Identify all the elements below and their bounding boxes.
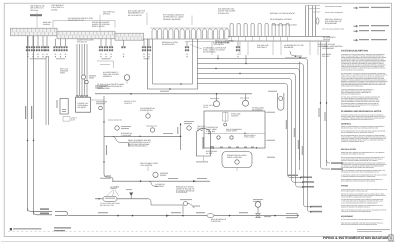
svg-text:MPLETE AND OPERATIONAL SYSTEM: MPLETE AND OPERATIONAL SYSTEM AS INDICAT… [341,224,377,226]
svg-text:ODES AND THE REQUIREMENTS: ODES AND THE REQUIREMENTS [341,93,360,95]
svg-text:ETE AND OP: ETE AND OP [77,41,88,44]
svg-text:VICES NECESSARY FOR A COMPLETE: VICES NECESSARY FOR A COMPLETE [341,69,364,71]
svg-text:S OF THE LOCAL AUTHORITY HAVI: S OF THE LOCAL AUTHORITY HAVI [322,29,345,31]
svg-text:UIREMENTS: UIREMENTS [103,75,112,78]
svg-text:NGINEER OF RECORD THE DOMESTIC: NGINEER OF RECORD THE DOMESTIC WATER S [341,207,370,209]
svg-text:TY HAVING JURISDICTION PROVIDE: TY HAVING JURISDICTION PROVIDE ALL LABOR… [341,176,375,178]
svg-text:PLUMBING AND MECHANICAL NOTES: PLUMBING AND MECHANICAL NOTES [341,110,382,113]
svg-text:ESTIC WATE: ESTIC WATE [318,45,329,48]
svg-text:REQUIREMENT: REQUIREMENT [325,22,338,25]
svg-text:AND OPERATI: AND OPERATI [210,98,220,100]
svg-text:Y ALL EXI: Y ALL EXI [206,130,216,133]
svg-text:RATIONAL SYSTEM AS INDICAT: RATIONAL SYSTEM AS INDICAT [270,12,296,15]
svg-text:REPORT ANY DISC: REPORT ANY DISC [100,204,115,207]
svg-text:ONAL SYSTEM: ONAL SYSTEM [240,98,250,100]
svg-text:D SERVICES NEC: D SERVICES NEC [140,109,154,112]
svg-text:ENGINEER: ENGINEER [284,46,294,49]
svg-text:TEM SHALL BE INSTALLED IN STRI: TEM SHALL BE INSTALLED IN STRICT ACCORDA… [341,171,379,173]
svg-text:CEMENT: CEMENT [110,187,118,190]
svg-text:STRICT ACCO: STRICT ACCO [244,136,255,139]
svg-text:D IN STRIC: D IN STRIC [211,220,221,223]
svg-text:NTRACTOR SHALL VERIFY ALL EXIS: NTRACTOR SHALL VERIFY ALL EXISTING CONDI… [341,128,379,130]
svg-text:LL BE: LL BE [206,152,213,155]
svg-text:HE LOCAL AUTHO: HE LOCAL AUTHO [128,14,142,17]
svg-text:SHALL REPORT ANY DISCREPANCI: SHALL REPORT ANY DISCREPANCI [341,86,364,88]
svg-text:CTION PROVIDE ALL LABOR MATERI: CTION PROVIDE ALL LABOR MATERIALS EQUIPM [341,196,372,198]
svg-text:ND OPERATIONAL SYSTEM AS INDIC: ND OPERATIONAL SYSTEM AS INDICATED ON DR… [341,181,376,183]
svg-text:OR SHALL VERIFY ALL EXISTI: OR SHALL VERIFY ALL EXISTI [272,23,297,26]
svg-text:ON PROV: ON PROV [323,38,331,41]
svg-text:AS INDICATED: AS INDICATED [162,43,175,46]
svg-text:TEM SHAL: TEM SHAL [30,9,38,12]
svg-text:PLY SYSTEM S: PLY SYSTEM S [176,191,188,194]
svg-text:ETE AND OPE: ETE AND OPE [218,12,230,15]
svg-text:L LABOR MAT: L LABOR MAT [121,134,132,137]
svg-text:Y ALL EXISTIN: Y ALL EXISTIN [140,164,153,167]
svg-text:HAVING JURISDICTIO: HAVING JURISDICTIO [108,120,123,122]
svg-text:PIPING & INSTRUMENTATION DIAGR: PIPING & INSTRUMENTATION DIAGRAM [323,236,388,240]
svg-text:MESTIC WATER SUPPLY SYSTEM SHA: MESTIC WATER SUPPLY SYSTEM SHALL BE [341,190,368,192]
svg-text:CABLE CODES AND: CABLE CODES AND [227,156,242,159]
svg-text:PIPING: PIPING [341,185,348,188]
svg-text:OF ANY WORK AND SHALL REPORT A: OF ANY WORK AND SHALL REPORT ANY DISCREP… [341,167,375,169]
svg-text:ED ON DRAWINGS CONTRACT: ED ON DRAWINGS CONTRACT [270,18,293,21]
svg-text:SYSTEM DESCRIPTION: SYSTEM DESCRIPTION [341,50,368,53]
svg-text:8: 8 [390,237,392,241]
svg-text:COMPLETE: COMPLETE [124,102,133,105]
svg-text:CCORDA: CCORDA [51,8,58,11]
svg-text:LS EQUIPMENT AND SERVICES NECE: LS EQUIPMENT AND SERVICES NECESSARY FOR … [341,119,374,121]
svg-text:FY ALL EXISTING CONDITIONS PRI: FY ALL EXISTING CONDITIONS PRIOR TO COMM… [341,202,378,204]
svg-text:BE INSTA: BE INSTA [78,106,87,109]
svg-text:PORT ANY D: PORT ANY D [257,46,268,49]
svg-text:LED IN STRICT ACCORDANCE: LED IN STRICT ACCORDANCE [325,12,343,14]
svg-text:MATERIALS EQUIPMENT: MATERIALS EQUIPMENT [163,18,182,21]
svg-text:INSTALLATION: INSTALLATION [341,148,356,151]
svg-text:CES NEC: CES NEC [322,55,330,58]
svg-text:EQUIPMENT: EQUIPMENT [341,215,354,218]
svg-text:RICT ACCORDANCE WITH ALL APPLI: RICT ACCORDANCE WITH ALL APPLICABLE CODE… [341,132,374,134]
svg-text:WATER SUPPLY: WATER SUPPLY [226,130,238,133]
svg-text:NEER OF RECOR: NEER OF RECOR [92,25,105,28]
svg-text:OF RECORD THE DOMESTIC WATER S: OF RECORD THE DOMESTIC WATER SU [341,154,365,156]
svg-text:WITH: WITH [60,71,66,74]
svg-text:NG CONDITIONS: NG CONDITIONS [203,50,216,53]
svg-text:SYSTEM AS INDICATED O: SYSTEM AS INDICATED O [128,145,148,148]
svg-text:APPLICA: APPLICA [103,13,111,16]
svg-text:L APPLICABLE CODES AND THE REQ: L APPLICABLE CODES AND THE REQUIREMENTS [341,211,371,213]
svg-text:ITIONS P: ITIONS P [231,114,239,117]
svg-text:OF THE LOCAL AUTHORITY HAVING: OF THE LOCAL AUTHORITY HAVING JURISDICTI… [341,219,383,221]
svg-text:SHALL: SHALL [43,23,51,26]
svg-text:N DRAWINGS CON: N DRAWINGS CON [146,126,157,128]
svg-text:F RECORD THE DOMESTIC WAT: F RECORD THE DOMESTIC WAT [341,106,360,108]
svg-text:NT OF ANY WORK: NT OF ANY WORK [215,41,231,44]
svg-text:S PRIOR TO COMMENCEMENT OF ANY: S PRIOR TO COMMENCEMENT OF ANY [341,141,364,143]
svg-text:NS PRIOR: NS PRIOR [155,185,164,188]
svg-text:UTHORITY HAVING JURISDICTION P: UTHORITY HAVING JURISDICTION PROVIDE ALL… [341,160,378,162]
svg-text:SYSTEM SHALL BE INSTAL: SYSTEM SHALL BE INSTAL [325,6,342,8]
svg-text:LABOR MATERIA: LABOR MATERIA [97,87,110,90]
svg-text:GENERAL: GENERAL [341,122,352,125]
